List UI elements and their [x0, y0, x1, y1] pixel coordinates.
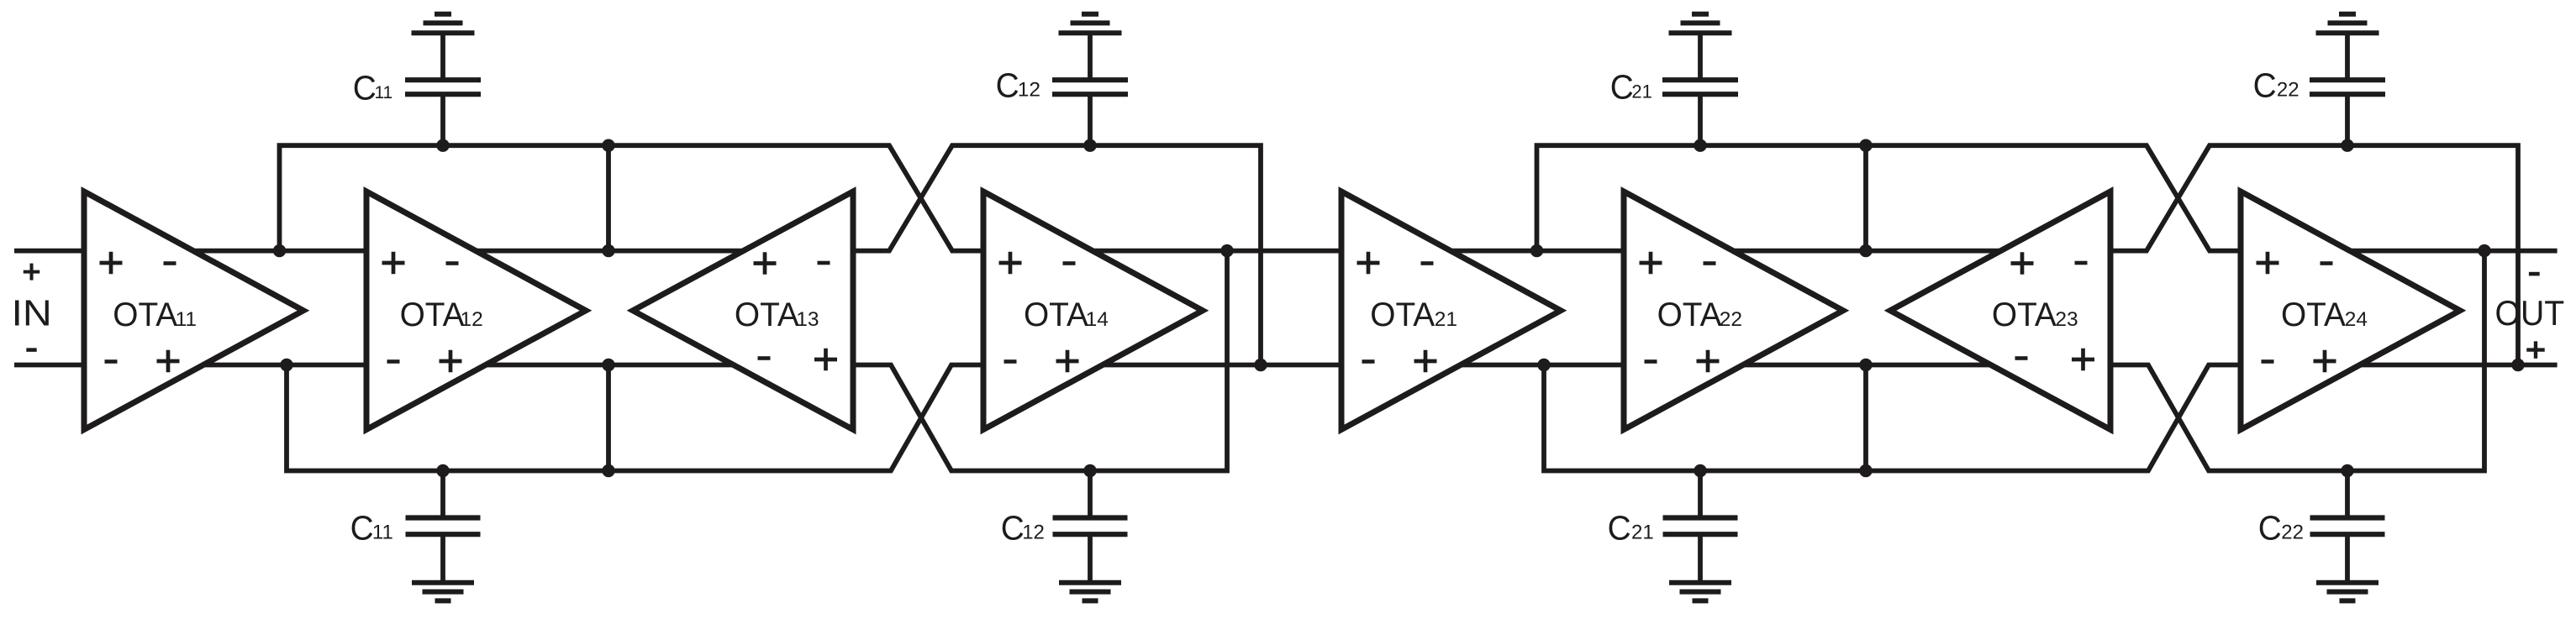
svg-text:24: 24 [2345, 308, 2368, 331]
svg-text:OTA: OTA [1370, 296, 1435, 333]
svg-text:22: 22 [2281, 521, 2304, 543]
svg-text:22: 22 [2277, 79, 2299, 102]
svg-text:11: 11 [374, 83, 392, 102]
svg-text:C: C [2253, 66, 2277, 105]
svg-text:OTA: OTA [2281, 296, 2346, 333]
svg-text:21: 21 [1435, 308, 1457, 331]
svg-text:12: 12 [461, 308, 483, 331]
svg-text:12: 12 [1018, 79, 1040, 102]
svg-text:C: C [1608, 509, 1631, 548]
svg-text:C: C [996, 66, 1019, 105]
svg-text:C: C [353, 68, 377, 107]
svg-text:C: C [350, 509, 374, 548]
svg-text:14: 14 [1086, 308, 1109, 331]
svg-text:12: 12 [1022, 521, 1045, 543]
svg-text:OTA: OTA [400, 296, 465, 333]
svg-text:OTA: OTA [1024, 296, 1088, 333]
svg-text:23: 23 [2055, 308, 2078, 331]
svg-text:21: 21 [1631, 81, 1651, 102]
svg-text:OUT: OUT [2495, 293, 2565, 333]
svg-text:11: 11 [176, 308, 197, 331]
svg-text:11: 11 [372, 522, 393, 544]
svg-text:OTA: OTA [1992, 296, 2057, 333]
svg-text:13: 13 [796, 308, 819, 331]
svg-text:C: C [1001, 509, 1025, 548]
svg-text:OTA: OTA [735, 296, 799, 333]
svg-text:IN: IN [12, 293, 52, 334]
svg-text:OTA: OTA [113, 296, 177, 333]
svg-text:C: C [2258, 509, 2282, 548]
svg-text:C: C [1610, 68, 1634, 107]
svg-text:21: 21 [1631, 521, 1654, 543]
svg-text:OTA: OTA [1657, 296, 1722, 333]
svg-text:22: 22 [1720, 308, 1742, 331]
